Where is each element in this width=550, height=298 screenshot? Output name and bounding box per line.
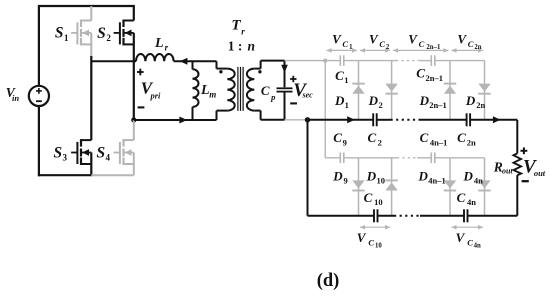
node primary dot: [219, 70, 222, 73]
svg-text:4n: 4n: [474, 243, 481, 250]
svg-text:2: 2: [378, 100, 382, 110]
svg-text:S: S: [53, 144, 62, 161]
wire node A to Lr: [91, 60, 136, 62]
wire bottom rail after C10: [378, 215, 395, 217]
label Vout plus: [521, 150, 528, 152]
wire bottom rail left: [308, 215, 375, 217]
svg-text:C: C: [368, 238, 374, 248]
svg-text:n: n: [248, 38, 256, 53]
diode D4n-1: [449, 158, 451, 216]
label Vsec plus: [290, 78, 296, 80]
svg-text:2n: 2n: [476, 100, 485, 110]
svg-text:4n–1: 4n–1: [430, 137, 447, 147]
svg-text:C: C: [342, 39, 348, 49]
resistor Rout: [514, 153, 522, 175]
svg-text:V: V: [332, 32, 342, 47]
svg-text:out: out: [502, 167, 513, 176]
svg-text:2n: 2n: [474, 44, 481, 51]
diode D10: [391, 158, 393, 216]
wire top rail: [38, 5, 135, 7]
wire mid rail dotted: [391, 119, 420, 121]
wire S1 drain branch (gray): [90, 6, 92, 21]
svg-text:2n–1: 2n–1: [429, 100, 446, 110]
wire secondary top: [254, 68, 260, 70]
wire leg B node to junction: [133, 33, 135, 120]
svg-text:2: 2: [106, 33, 111, 43]
svg-text:10: 10: [377, 176, 386, 186]
wire left gray vertical: [324, 61, 326, 158]
meas arrow VC2n-1: [393, 49, 448, 51]
svg-text:2: 2: [378, 137, 382, 147]
wire Cp to mid-rail node (gray): [285, 119, 308, 121]
wire left drop to bottom rail: [307, 120, 309, 216]
svg-text:V: V: [357, 230, 367, 245]
wire Cp branch bottom: [284, 93, 286, 120]
svg-text:D: D: [418, 168, 429, 183]
wire Vin top: [38, 6, 40, 86]
svg-text:9: 9: [343, 137, 347, 147]
svg-text:3: 3: [63, 153, 68, 163]
svg-text:D: D: [334, 93, 345, 108]
current arrow Cp: [281, 65, 288, 73]
svg-text:C: C: [457, 190, 466, 205]
diode D4n: [484, 158, 486, 216]
wire top rail C1 to D2: [344, 60, 396, 62]
svg-text:1 :: 1 :: [228, 38, 243, 53]
diode D2n: [484, 61, 486, 120]
diode D2: [391, 61, 393, 120]
current arrow primary bottom: [179, 117, 187, 124]
wire S4 source to bottom (gray): [133, 153, 135, 176]
svg-text:V: V: [457, 32, 467, 47]
svg-text:(d): (d): [317, 271, 340, 291]
svg-text:C: C: [457, 130, 466, 145]
meas arrow VC2: [360, 49, 390, 51]
wire leg A node to S3 drain: [90, 56, 92, 140]
meas arrow VC10: [360, 226, 390, 228]
wire S4 drain branch (gray): [133, 120, 135, 140]
wire rail2 dotted: [397, 157, 417, 159]
meas arrow VC2n: [452, 49, 484, 51]
label Vpri plus: [137, 71, 144, 73]
wire mid rail after C2: [377, 119, 391, 121]
svg-text:D: D: [368, 93, 379, 108]
wire bottom rail dotted: [394, 215, 420, 217]
svg-text:4n: 4n: [467, 197, 476, 207]
capacitor C1: [339, 55, 341, 66]
inductor Lm: [192, 61, 194, 69]
node top-rail junction (gray): [323, 59, 327, 63]
transformer T secondary winding: [247, 69, 254, 111]
svg-text:L: L: [200, 83, 210, 98]
svg-text:r: r: [241, 26, 245, 36]
wire junction to Lm: [134, 119, 217, 121]
svg-text:C: C: [468, 39, 474, 49]
wire rail2 left (gray): [325, 157, 340, 159]
capacitor C4n-1: [430, 153, 432, 164]
svg-text:in: in: [12, 93, 19, 103]
svg-text:V: V: [408, 32, 418, 47]
svg-text:D: D: [465, 93, 476, 108]
label Vpri minus: [138, 106, 145, 108]
svg-text:L: L: [154, 36, 164, 51]
svg-text:2n–1: 2n–1: [426, 44, 441, 51]
wire Vin bottom: [38, 106, 40, 176]
svg-text:S: S: [97, 25, 106, 42]
svg-text:D: D: [332, 168, 343, 183]
wire S1 source to node A (gray): [90, 33, 92, 57]
svg-text:4n: 4n: [474, 176, 483, 186]
diode D9: [358, 158, 360, 216]
wire Lr to transformer: [174, 60, 217, 62]
svg-text:S: S: [96, 144, 105, 161]
svg-text:D: D: [366, 168, 377, 183]
svg-text:p: p: [270, 92, 275, 102]
node primary-bottom junction: [131, 117, 136, 122]
wire Cp branch top: [284, 61, 286, 88]
wire S2 drain branch: [133, 6, 135, 21]
current arrow into Lr: [180, 58, 188, 65]
svg-text:C: C: [420, 130, 429, 145]
wire step to primary top: [216, 61, 218, 68]
svg-text:C: C: [367, 130, 376, 145]
svg-text:2n: 2n: [467, 137, 476, 147]
label Vout minus: [522, 180, 529, 182]
inductor Lr: [136, 54, 174, 61]
svg-text:4: 4: [106, 152, 111, 162]
svg-text:sec: sec: [301, 90, 313, 99]
svg-text:pri: pri: [149, 91, 161, 101]
transistor S1: [81, 20, 91, 22]
svg-text:1: 1: [349, 44, 353, 51]
node secondary dot: [258, 70, 261, 73]
svg-text:1: 1: [64, 33, 69, 43]
meas arrow VC1: [327, 49, 357, 51]
svg-text:D: D: [419, 93, 430, 108]
wire to Rout top: [516, 120, 518, 154]
capacitor C9: [339, 153, 341, 164]
wire top rail dotted: [396, 60, 420, 62]
diode D2n-1: [449, 61, 451, 120]
wire bottom rail: [38, 174, 92, 176]
wire step to primary bottom: [216, 111, 218, 120]
svg-text:2n–1: 2n–1: [426, 73, 443, 83]
wire Rout bottom: [516, 175, 518, 216]
wire secondary to top rail (gray): [285, 60, 341, 62]
svg-text:C: C: [335, 68, 344, 83]
wire top rail to C2n-1: [420, 60, 431, 62]
label Vsec minus: [290, 102, 297, 104]
svg-text:D: D: [463, 168, 474, 183]
svg-text:C: C: [416, 65, 425, 80]
svg-text:out: out: [534, 168, 546, 178]
svg-text:C: C: [364, 190, 373, 205]
wire rail2 to C4n-1: [417, 157, 431, 159]
current arrow mid rail right: [493, 116, 501, 123]
svg-text:C: C: [261, 83, 270, 98]
wire bottom rail to C4n: [420, 215, 464, 217]
transformer T primary winding: [227, 69, 234, 111]
svg-text:2: 2: [386, 44, 390, 51]
transistor S4: [124, 139, 134, 141]
wire bottom rail right: [468, 215, 518, 217]
svg-text:T: T: [231, 17, 241, 33]
svg-text:C: C: [379, 39, 385, 49]
wire top rail right: [435, 60, 485, 62]
meas arrow VC4n: [452, 226, 484, 228]
svg-text:C: C: [419, 39, 425, 49]
capacitor C2: [372, 113, 374, 126]
diode D1: [358, 61, 360, 120]
wire mid rail left: [308, 119, 374, 121]
wire rail2 right: [435, 157, 485, 159]
svg-text:r: r: [165, 43, 169, 53]
svg-text:V: V: [456, 230, 466, 245]
transformer core: [237, 67, 239, 111]
svg-text:C: C: [333, 130, 342, 145]
transistor S3: [81, 139, 91, 141]
wire rail2 C9 to D10: [344, 157, 397, 159]
svg-text:10: 10: [375, 243, 382, 250]
source Vin: [29, 86, 49, 106]
capacitor Cp: [277, 87, 293, 89]
svg-text:S: S: [55, 25, 64, 42]
capacitor C2n: [466, 113, 468, 126]
capacitor C4n: [463, 209, 465, 222]
svg-text:m: m: [209, 89, 216, 99]
transistor S2: [124, 20, 134, 22]
wire mid rail to C2n: [419, 119, 467, 121]
node mid-rail junction: [305, 117, 310, 122]
capacitor C10: [373, 209, 375, 222]
svg-text:4n–1: 4n–1: [428, 176, 445, 186]
current arrow mid rail left: [347, 116, 355, 123]
svg-text:C: C: [467, 238, 473, 248]
wire mid rail right: [470, 119, 517, 121]
wire secondary bottom: [254, 110, 260, 112]
svg-text:9: 9: [343, 176, 347, 186]
svg-text:V: V: [369, 32, 379, 47]
capacitor C2n-1: [430, 55, 432, 66]
wire S3 source to bottom rail: [90, 153, 92, 176]
svg-text:10: 10: [374, 197, 383, 207]
svg-text:1: 1: [345, 100, 349, 110]
svg-text:1: 1: [344, 75, 348, 85]
